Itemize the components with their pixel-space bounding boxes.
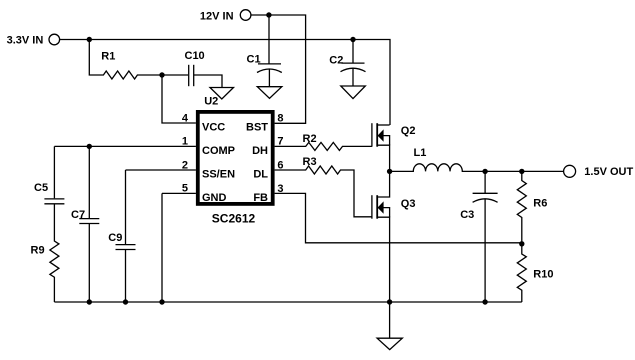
svg-text:C2: C2 xyxy=(329,54,343,66)
svg-text:DH: DH xyxy=(252,145,268,157)
svg-text:R6: R6 xyxy=(533,198,547,210)
svg-text:Q3: Q3 xyxy=(401,198,416,210)
svg-text:C9: C9 xyxy=(108,232,122,244)
svg-text:3.3V IN: 3.3V IN xyxy=(7,34,44,46)
svg-text:1: 1 xyxy=(182,136,188,148)
svg-text:R9: R9 xyxy=(31,244,45,256)
svg-text:SC2612: SC2612 xyxy=(212,211,256,225)
svg-text:SS/EN: SS/EN xyxy=(202,168,235,180)
svg-text:R2: R2 xyxy=(303,133,317,145)
svg-text:4: 4 xyxy=(182,112,189,124)
svg-text:R10: R10 xyxy=(533,269,553,281)
svg-text:VCC: VCC xyxy=(202,121,225,133)
svg-text:C1: C1 xyxy=(247,54,261,66)
svg-text:BST: BST xyxy=(246,121,268,133)
svg-text:5: 5 xyxy=(182,183,188,195)
svg-text:L1: L1 xyxy=(414,147,427,159)
svg-text:2: 2 xyxy=(182,159,188,171)
svg-text:1.5V OUT: 1.5V OUT xyxy=(584,166,633,178)
svg-text:6: 6 xyxy=(277,159,283,171)
svg-text:R1: R1 xyxy=(101,50,115,62)
svg-text:DL: DL xyxy=(253,168,268,180)
svg-text:FB: FB xyxy=(253,192,268,204)
svg-text:8: 8 xyxy=(277,113,283,125)
svg-text:3: 3 xyxy=(277,183,283,195)
svg-text:C3: C3 xyxy=(460,209,474,221)
svg-text:12V IN: 12V IN xyxy=(200,11,234,23)
svg-text:R3: R3 xyxy=(303,156,317,168)
svg-text:GND: GND xyxy=(202,192,227,204)
svg-text:C10: C10 xyxy=(185,50,205,62)
svg-text:7: 7 xyxy=(277,136,283,148)
svg-text:C7: C7 xyxy=(71,209,85,221)
svg-text:C5: C5 xyxy=(34,182,48,194)
svg-text:Q2: Q2 xyxy=(401,125,416,137)
svg-text:COMP: COMP xyxy=(202,145,235,157)
svg-text:U2: U2 xyxy=(204,95,218,107)
